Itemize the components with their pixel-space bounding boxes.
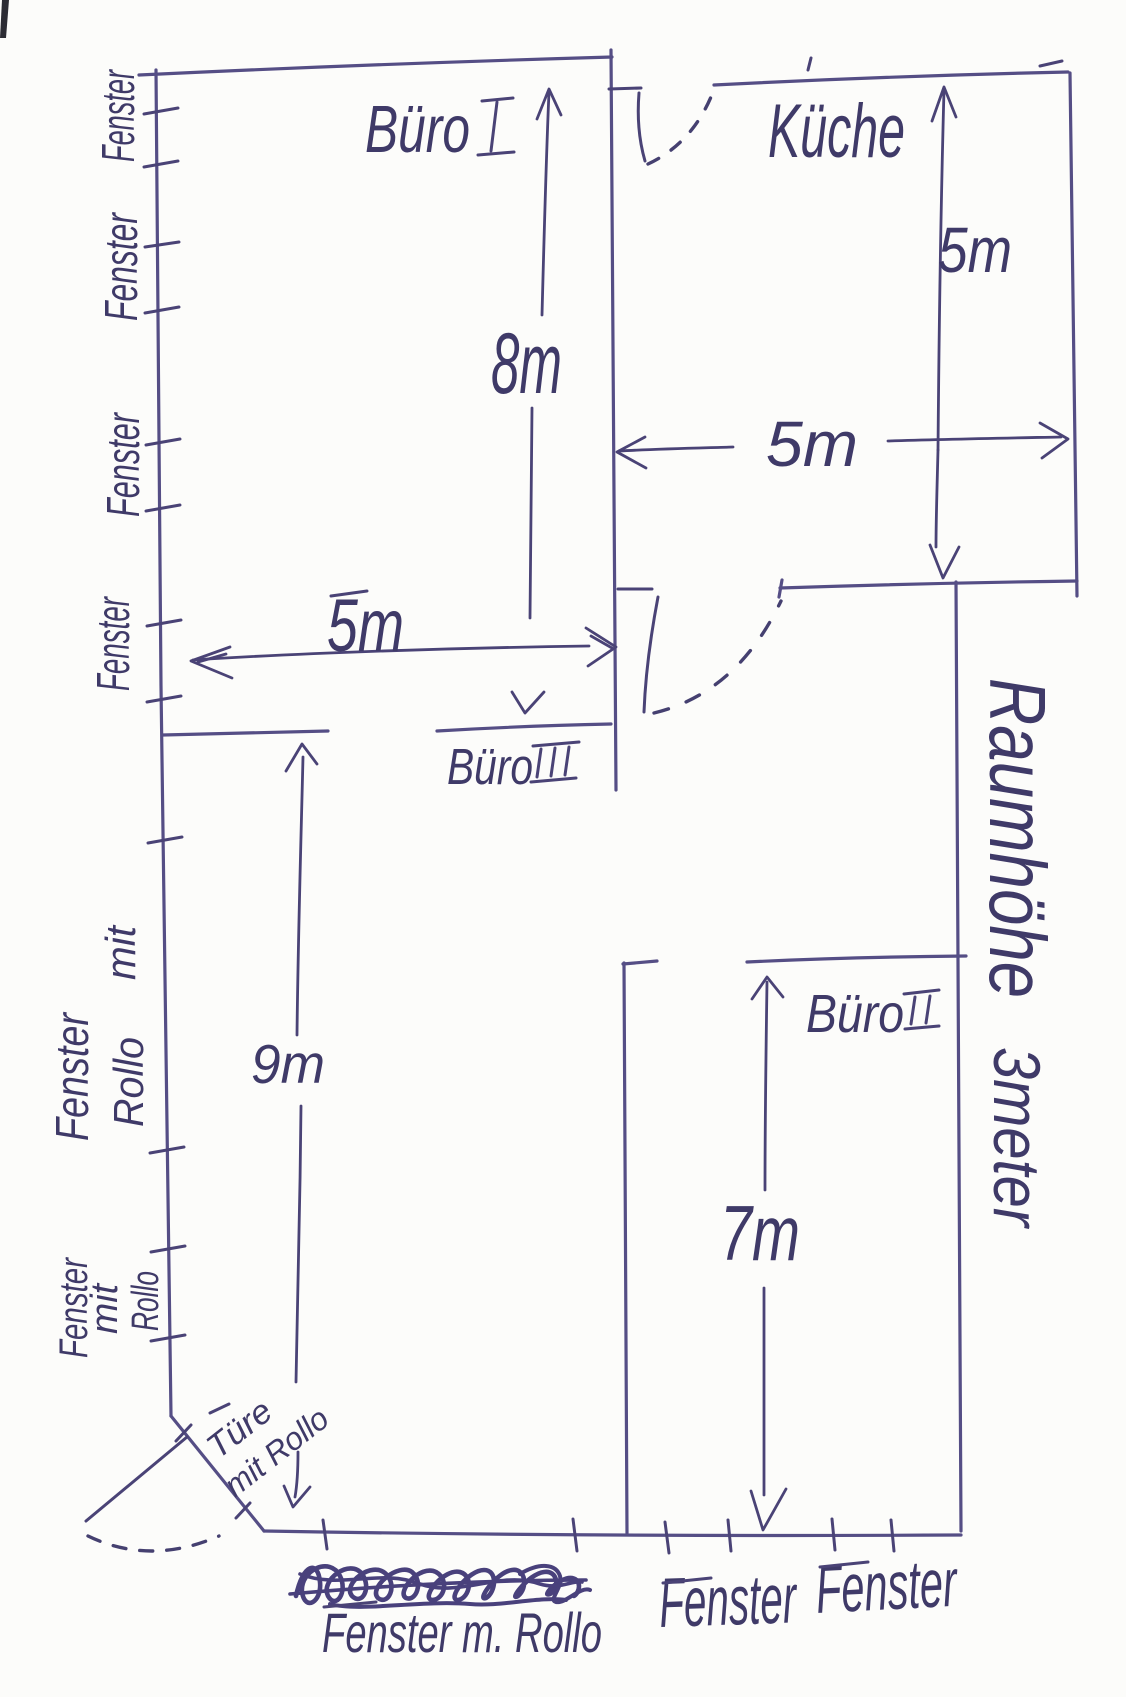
svg-text:Fenster: Fenster <box>92 69 144 162</box>
svg-text:Büro: Büro <box>806 984 904 1044</box>
svg-text:Fenster: Fenster <box>658 1559 799 1642</box>
svg-text:Fenster: Fenster <box>95 212 147 321</box>
svg-text:Fenster: Fenster <box>97 412 149 517</box>
svg-text:5m: 5m <box>938 214 1012 286</box>
svg-text:mit: mit <box>97 924 144 980</box>
svg-text:Büro: Büro <box>365 92 470 167</box>
svg-text:8m: 8m <box>491 316 562 412</box>
svg-text:7m: 7m <box>720 1189 800 1277</box>
svg-text:Küche: Küche <box>768 89 905 174</box>
svg-text:Rollo: Rollo <box>105 1037 152 1127</box>
svg-text:Raumhöhe: Raumhöhe <box>973 678 1062 998</box>
svg-text:5m: 5m <box>766 408 858 480</box>
svg-text:Fenster: Fenster <box>87 596 139 691</box>
svg-text:Rollo: Rollo <box>125 1271 167 1331</box>
svg-text:Fenster m. Rollo: Fenster m. Rollo <box>322 1601 602 1664</box>
svg-text:Fenster: Fenster <box>46 1012 98 1141</box>
svg-text:Büro: Büro <box>447 738 533 795</box>
svg-text:3meter: 3meter <box>980 1047 1054 1230</box>
svg-text:9m: 9m <box>251 1033 325 1095</box>
svg-text:Fenster: Fenster <box>814 1545 960 1628</box>
svg-text:mit: mit <box>84 1283 126 1334</box>
